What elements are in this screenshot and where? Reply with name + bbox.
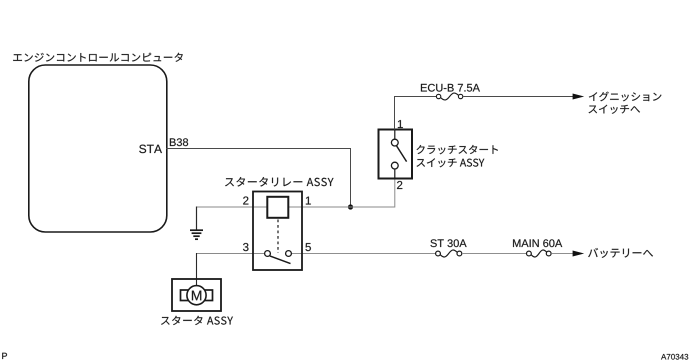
wire fuse to ignition arrow <box>463 96 573 98</box>
relay switch contact 3 <box>265 251 271 257</box>
fuse F3 MAIN 60A <box>527 250 552 257</box>
wire relay pin1 to junction and clutch switch <box>288 179 395 208</box>
clutch switch blade <box>396 146 406 162</box>
figure number A70343 <box>661 354 688 360</box>
label: starter relay assy (スタータリレー ASSY) <box>225 177 333 186</box>
wire to battery arrow <box>551 253 573 255</box>
starter motor M circle <box>187 286 206 305</box>
label: clutch start switch assy line2 (スイッチ ASSY) <box>417 158 485 167</box>
label MAIN 60A <box>513 239 562 247</box>
label: to battery (バッテリーへ) <box>588 248 653 258</box>
starter brush right <box>205 290 213 301</box>
wire ground drop <box>196 207 198 230</box>
fuse F2 ST 30A <box>436 250 462 257</box>
wire STA B38: ECU to junction <box>166 149 351 208</box>
relay actuation dashed link <box>277 220 279 254</box>
junction node at relay pin1 / clutch switch <box>348 204 353 209</box>
label: engine control computer (エンジンコントロールコンピュータ) <box>13 53 183 62</box>
net label B38 <box>170 138 188 146</box>
label ECU-B 7.5A <box>421 84 480 92</box>
relay pin 3 <box>243 243 248 251</box>
label: to ignition switch line1 (イグニッション) <box>589 92 661 102</box>
motor letter M <box>192 291 201 301</box>
starter assy M1 box <box>172 279 221 311</box>
clutch switch contact 1 (top) <box>394 130 396 140</box>
page letter P <box>2 353 7 359</box>
relay switch blade <box>270 256 291 264</box>
label: starter assy (スタータ ASSY) <box>161 316 233 325</box>
label ST 30A <box>430 239 466 247</box>
ECU box U1 (engine control computer) <box>29 65 167 232</box>
wire relay pin2 to ground <box>196 206 267 208</box>
wire clutch switch pin1 riser to ignition feed <box>395 97 437 130</box>
fuse F1 ECU-B 7.5A <box>436 93 462 100</box>
starter relay K1 box <box>253 192 302 271</box>
clutch switch contact 2 (bottom) <box>391 162 398 169</box>
wire drop to starter motor <box>196 253 198 286</box>
clutch switch pin 1 label <box>398 120 403 128</box>
clutch switch pin 2 label <box>397 181 402 189</box>
wire between fuses <box>462 253 526 255</box>
starter brush left <box>181 290 189 301</box>
label: clutch start switch assy line1 (クラッチスタート) <box>417 145 498 154</box>
relay pin 1 <box>306 197 311 205</box>
relay pin 5 <box>305 243 310 251</box>
ground symbol <box>190 230 203 239</box>
wire relay pin5 to battery <box>289 253 436 255</box>
pin label STA <box>139 145 162 154</box>
relay pin 2 <box>243 196 248 204</box>
relay coil <box>267 197 288 218</box>
label: to ignition switch line2 (スイッチへ) <box>589 105 640 114</box>
arrow to ignition switch <box>573 94 585 100</box>
wire relay pin3 to starter <box>196 253 268 255</box>
arrow to battery <box>573 251 585 257</box>
clutch start switch S1 box <box>379 130 413 179</box>
relay switch contact 5 <box>286 251 292 257</box>
